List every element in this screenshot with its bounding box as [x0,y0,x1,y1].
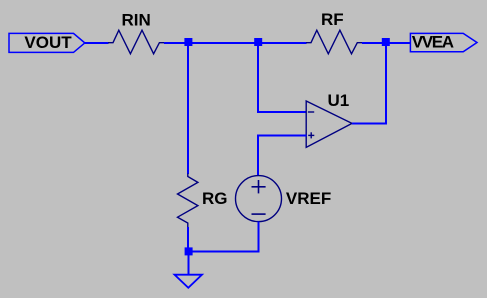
resistor RF [306,10,363,54]
port VOUT [9,33,85,53]
wire RG bottom to node D [187,227,189,249]
svg-text:RG: RG [202,189,228,208]
svg-text:U1: U1 [328,91,350,110]
svg-text:VOUT: VOUT [24,33,72,52]
resistor RG [178,174,228,228]
wire node B down to op-amp inverting input [258,44,307,112]
port VVEA [410,32,477,51]
ground [175,275,203,288]
wire RIN to node A to node B to RF [164,42,307,44]
svg-text:RIN: RIN [122,10,151,29]
node D junction [185,247,193,255]
svg-text:VVEA: VVEA [412,32,454,51]
voltage source VREF [236,176,332,222]
svg-text:VREF: VREF [286,189,331,208]
resistor RIN [108,10,165,54]
node C junction [382,38,390,46]
wire VOUT port to RIN [85,42,109,44]
node B junction [254,38,262,46]
wire op-amp output to node C [352,45,386,124]
wire VREF to op-amp non-inverting input [258,136,307,177]
wire node D to ground [188,255,190,275]
svg-text:RF: RF [321,10,344,29]
op-amp U1 [306,91,352,147]
wire RF to node C to VVEA port [362,42,411,44]
wire node A down to RG [187,43,189,174]
wire VREF bottom to node D [190,222,259,252]
node A junction [184,38,192,46]
